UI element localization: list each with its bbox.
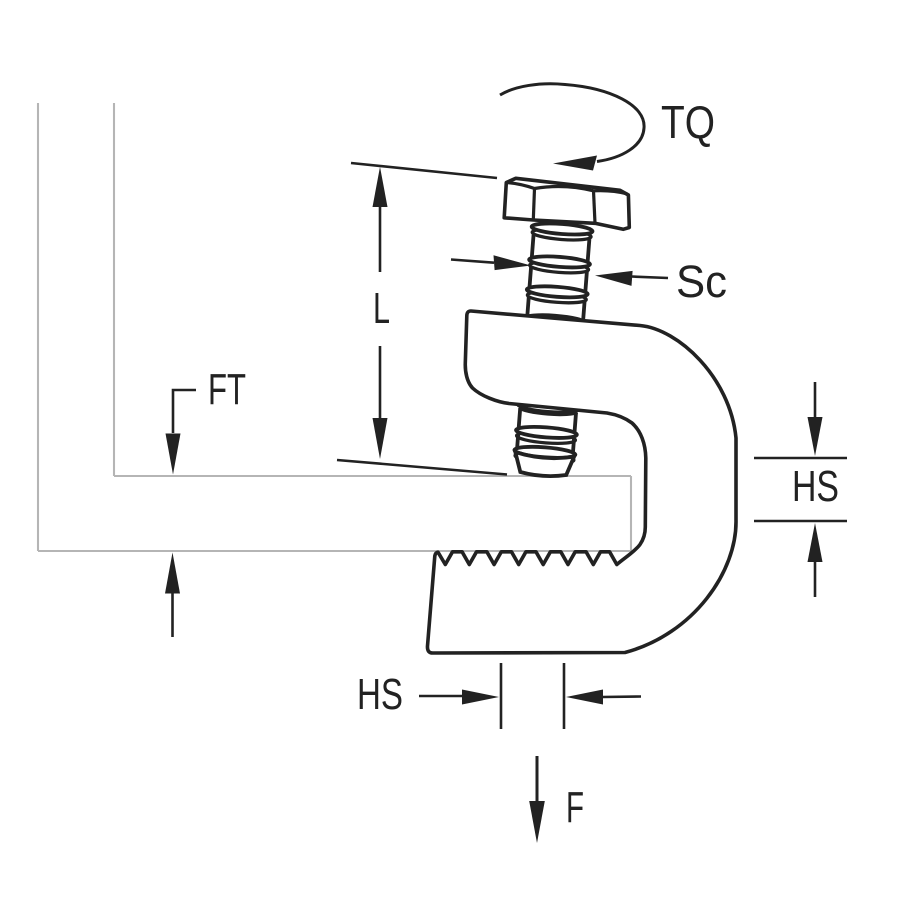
L arrow up: [373, 167, 388, 207]
HS bottom right arrow: [566, 690, 603, 705]
svg-text:Sc: Sc: [676, 256, 727, 307]
svg-text:TQ: TQ: [661, 96, 715, 148]
flange top line: [114, 475, 631, 477]
svg-text:HS: HS: [792, 462, 839, 511]
hex head: [504, 178, 629, 229]
HS bottom left arrow: [462, 690, 499, 705]
thread band 1: [532, 235, 590, 261]
lower band 1: [519, 410, 576, 431]
L arrow down: [373, 418, 388, 459]
beam web inner line: [113, 103, 115, 476]
FT arrow down: [166, 434, 181, 475]
svg-text:FT: FT: [208, 365, 246, 414]
flange bottom line: [38, 550, 631, 552]
HS bottom ticks: [419, 663, 641, 729]
HS right arrow up: [808, 523, 823, 562]
L dimension line: [379, 205, 382, 420]
TQ arrowhead: [553, 156, 597, 171]
thread ring 3: [527, 290, 587, 304]
HS right arrow down: [808, 417, 823, 456]
thread band 2: [530, 267, 587, 291]
thread ring 1: [532, 227, 592, 241]
svg-text:L: L: [373, 284, 390, 333]
lower band 2: [517, 434, 574, 451]
F force arrow: [536, 756, 539, 803]
HS right dimension lines: [754, 382, 847, 597]
thread ring 2: [529, 260, 589, 274]
svg-text:HS: HS: [357, 670, 403, 719]
Sc dimension left arrow: [451, 260, 494, 263]
cone tip ring: [515, 451, 575, 465]
TQ rotation arrow: [500, 84, 644, 162]
L dimension extension line top: [351, 163, 497, 178]
thread ring 4 (mostly hidden): [524, 313, 586, 328]
L dimension extension line bottom: [337, 460, 507, 475]
beam flange (grey structural angle): [38, 103, 631, 551]
FT leader line: [173, 390, 196, 433]
Sc dimension right arrow: [632, 277, 669, 279]
screw lower threads and tip: [513, 404, 579, 478]
clamp body: [427, 311, 736, 653]
screw upper threads: [524, 222, 593, 328]
svg-text:F: F: [566, 783, 584, 832]
flange tip edge: [630, 476, 632, 551]
FT lower arrow up: [165, 553, 180, 594]
lower ring 1 (bottom arcs at arm edge): [518, 404, 579, 414]
cone tip: [514, 452, 574, 478]
beam web outer line: [37, 103, 39, 551]
lower ring 2: [516, 431, 576, 445]
thread band 3: [527, 297, 584, 320]
